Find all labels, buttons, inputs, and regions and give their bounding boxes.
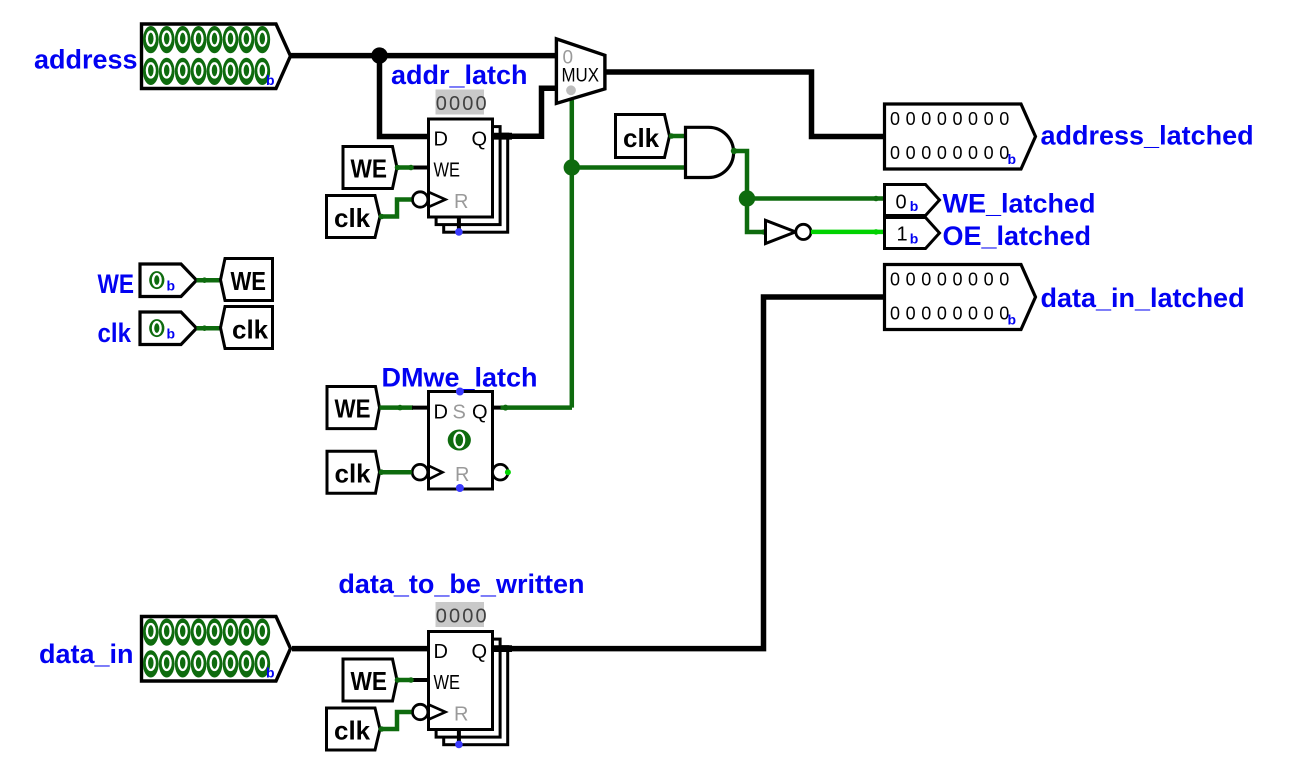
svg-text:WE_latched: WE_latched: [943, 189, 1096, 219]
svg-text:clk: clk: [98, 318, 132, 348]
svg-text:WE: WE: [335, 394, 371, 424]
svg-text:MUX: MUX: [562, 66, 600, 87]
svg-text:address: address: [34, 45, 138, 75]
svg-text:data_in_latched: data_in_latched: [1041, 283, 1245, 313]
svg-text:clk: clk: [335, 459, 372, 489]
svg-text:1: 1: [897, 224, 908, 246]
svg-text:WE: WE: [231, 266, 267, 296]
svg-text:address_latched: address_latched: [1041, 121, 1254, 151]
svg-text:D: D: [434, 402, 448, 424]
svg-text:clk: clk: [623, 123, 660, 153]
svg-text:WE: WE: [98, 269, 135, 299]
svg-text:S: S: [453, 402, 466, 424]
svg-text:R: R: [455, 464, 469, 486]
svg-text:Q: Q: [472, 402, 488, 424]
svg-text:b: b: [910, 231, 919, 247]
svg-text:clk: clk: [232, 315, 269, 345]
svg-text:OE_latched: OE_latched: [943, 221, 1092, 251]
svg-text:0: 0: [896, 192, 907, 214]
svg-text:addr_latch: addr_latch: [391, 60, 528, 90]
svg-text:data_to_be_written: data_to_be_written: [338, 569, 584, 599]
svg-text:data_in: data_in: [39, 639, 134, 669]
svg-text:b: b: [910, 198, 919, 214]
